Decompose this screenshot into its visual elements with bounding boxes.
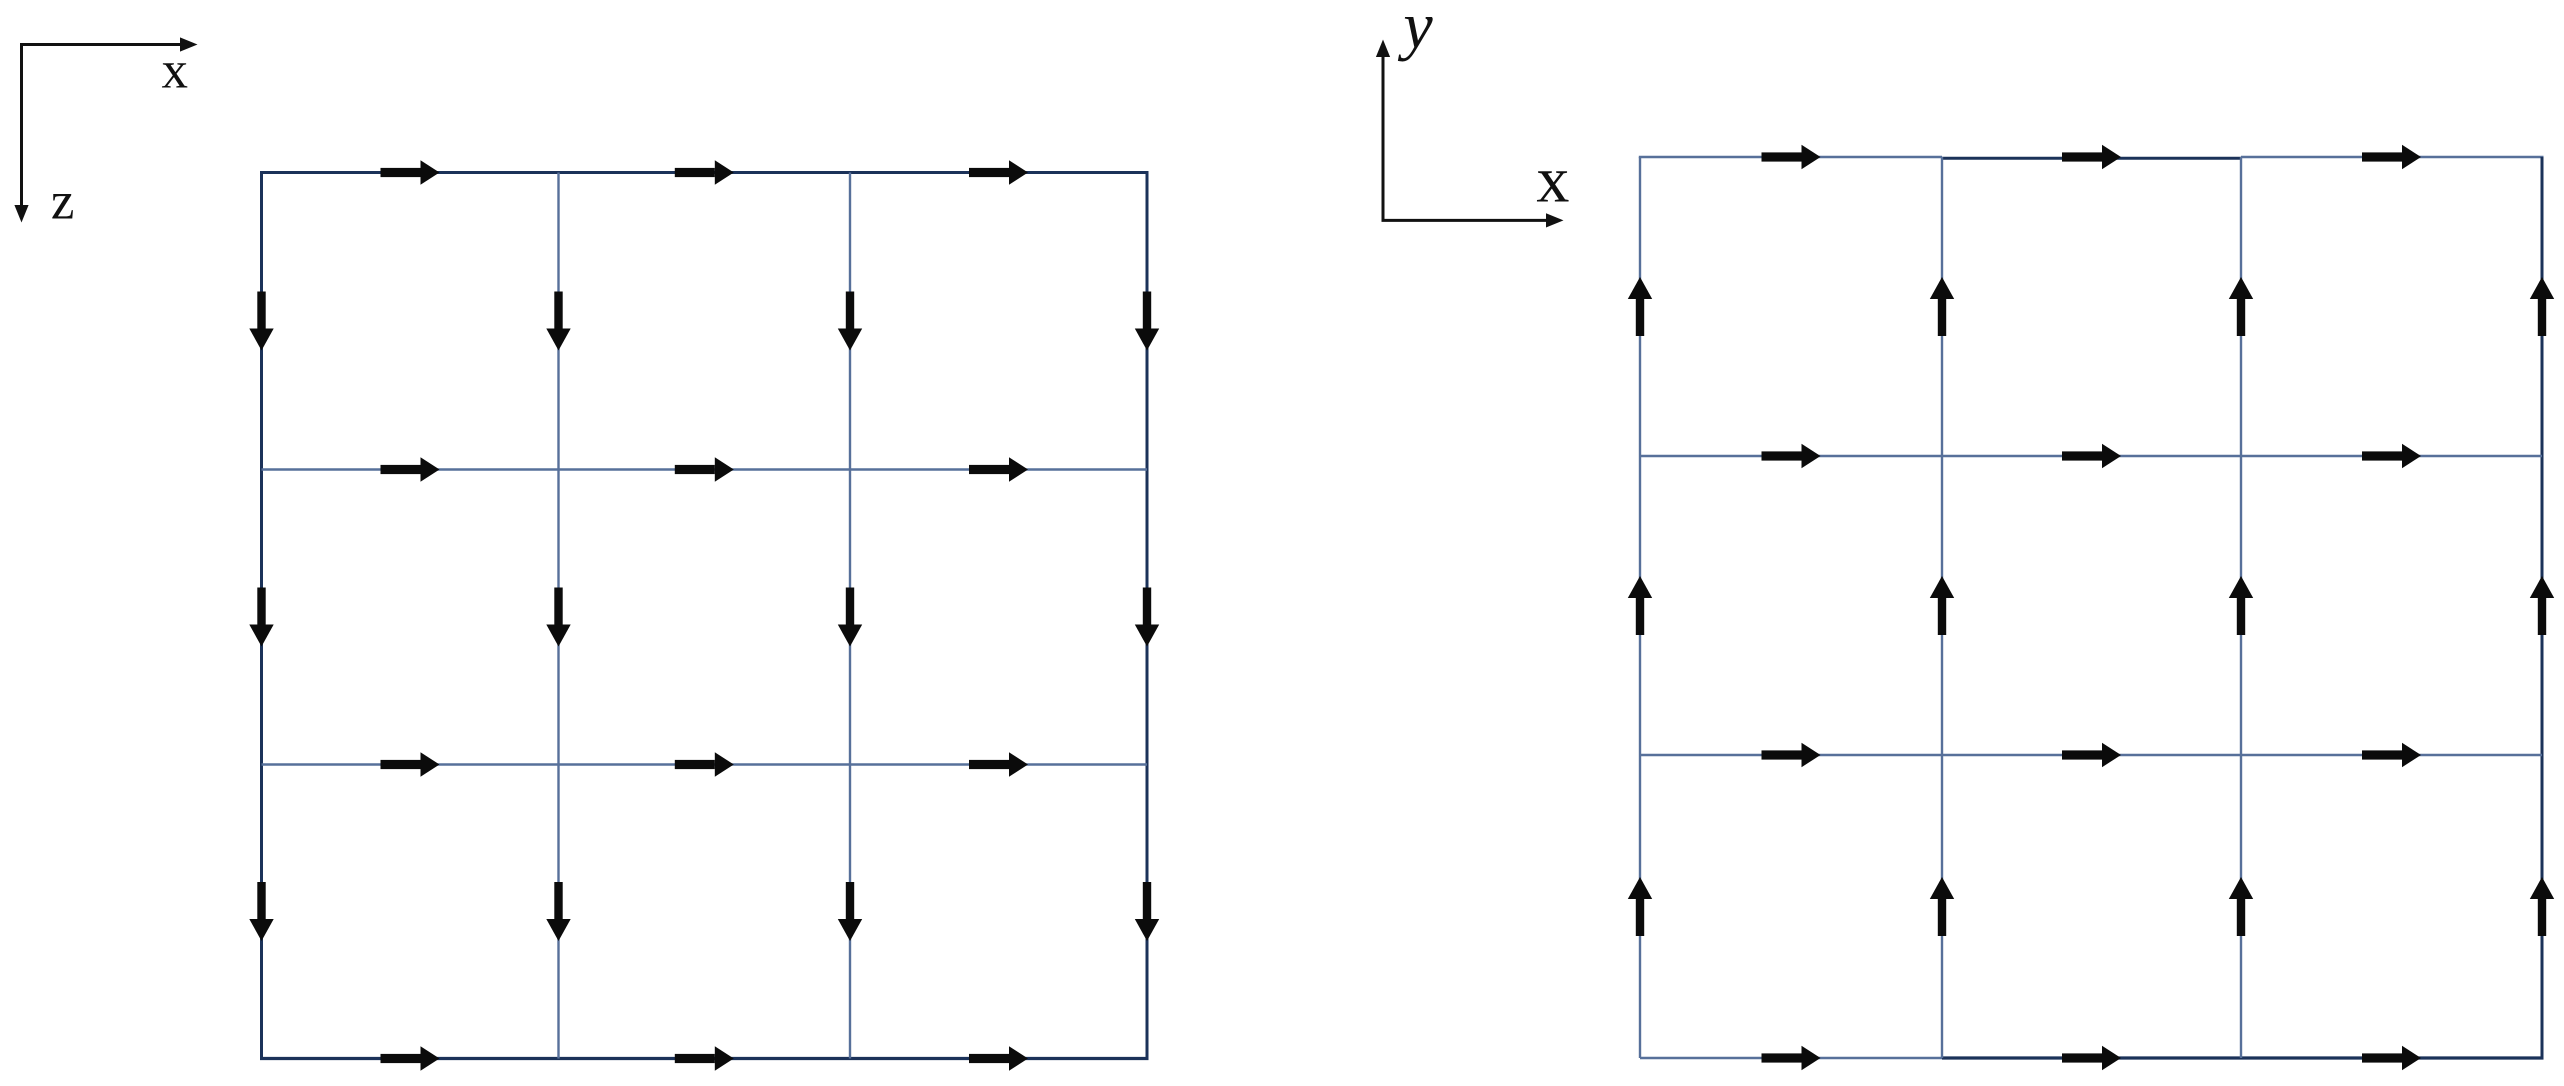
left grid x-velocity arrow h31 xyxy=(675,1046,734,1070)
left grid x-velocity arrow h10 xyxy=(381,457,440,481)
left grid x-velocity arrow h01 xyxy=(675,160,734,184)
right grid top border segment 3 xyxy=(2241,156,2544,158)
right grid x-velocity arrow h31 xyxy=(2062,1046,2121,1070)
right grid inner horizontal line 1 xyxy=(1640,455,2542,457)
left grid inner vertical line 1 xyxy=(557,173,559,1059)
left x-axis arrowhead xyxy=(180,37,198,51)
right grid y-velocity arrow v22 xyxy=(2229,877,2253,936)
right grid y-velocity arrow v13 xyxy=(2530,576,2554,635)
right grid inner vertical line 2 xyxy=(2240,157,2242,1058)
left grid bottom border xyxy=(260,1057,1149,1060)
right grid x-velocity arrow h01 xyxy=(2062,145,2121,169)
right grid top border segment 2 xyxy=(1942,157,2241,160)
svg-text:z: z xyxy=(51,173,75,231)
right grid y-velocity arrow v21 xyxy=(1930,877,1954,936)
right grid y-velocity arrow v02 xyxy=(2229,277,2253,336)
left grid x-velocity arrow h32 xyxy=(969,1046,1028,1070)
right x-axis arrowhead xyxy=(1546,213,1564,227)
right grid x-velocity arrow h22 xyxy=(2362,743,2421,767)
left grid x-velocity arrow h20 xyxy=(381,752,440,776)
right grid y-velocity arrow v01 xyxy=(1930,277,1954,336)
right grid bottom border segment 2 xyxy=(1942,1056,2544,1059)
right grid x-velocity arrow h21 xyxy=(2062,743,2121,767)
left grid left border xyxy=(260,173,263,1059)
right grid x-velocity arrow h12 xyxy=(2362,444,2421,468)
right grid x-velocity arrow h30 xyxy=(1762,1046,1821,1070)
right grid right border xyxy=(2541,157,2544,1058)
left grid z-velocity arrow v00 xyxy=(249,292,273,351)
right grid x-velocity arrow h11 xyxy=(2062,444,2121,468)
right grid inner vertical line 1 xyxy=(1941,157,1943,1058)
left grid x-velocity arrow h21 xyxy=(675,752,734,776)
left z-axis arrowhead xyxy=(14,205,28,223)
left grid z-velocity arrow v10 xyxy=(249,588,273,647)
right grid y-velocity arrow v23 xyxy=(2530,877,2554,936)
right grid top border segment 1 xyxy=(1639,156,1942,158)
right grid y-velocity arrow v00 xyxy=(1628,277,1652,336)
right grid bottom border segment 1 xyxy=(1640,1057,1942,1059)
left grid x-velocity arrow h12 xyxy=(969,457,1028,481)
left grid inner horizontal line 1 xyxy=(262,468,1148,470)
left grid x-velocity arrow h22 xyxy=(969,752,1028,776)
right grid x-velocity arrow h20 xyxy=(1762,743,1821,767)
right grid x-velocity arrow h32 xyxy=(2362,1046,2421,1070)
left axes x-z xyxy=(22,45,181,206)
right grid inner horizontal line 2 xyxy=(1640,754,2542,756)
svg-text:y: y xyxy=(1397,0,1433,63)
left grid z-velocity arrow v13 xyxy=(1135,588,1159,647)
right axes x-y xyxy=(1383,57,1547,221)
left grid x-velocity arrow h11 xyxy=(675,457,734,481)
left grid z-velocity arrow v23 xyxy=(1135,882,1159,941)
right grid x-velocity arrow h10 xyxy=(1762,444,1821,468)
svg-text:x: x xyxy=(1536,143,1569,216)
left grid z-velocity arrow v03 xyxy=(1135,292,1159,351)
left grid inner horizontal line 2 xyxy=(262,763,1148,765)
right grid y-velocity arrow v03 xyxy=(2530,277,2554,336)
left grid x-velocity arrow h00 xyxy=(381,160,440,184)
right grid y-velocity arrow v11 xyxy=(1930,576,1954,635)
left grid z-velocity arrow v20 xyxy=(249,882,273,941)
right y-axis arrowhead xyxy=(1376,40,1390,58)
right grid x-velocity arrow h00 xyxy=(1762,145,1821,169)
left grid top border xyxy=(260,171,1149,174)
left grid x-velocity arrow h02 xyxy=(969,160,1028,184)
right grid y-velocity arrow v10 xyxy=(1628,576,1652,635)
right grid left border xyxy=(1639,157,1641,1058)
left grid z-velocity arrow v01 xyxy=(546,292,570,351)
left grid inner vertical line 2 xyxy=(849,173,851,1059)
left grid z-velocity arrow v22 xyxy=(838,882,862,941)
left grid x-velocity arrow h30 xyxy=(381,1046,440,1070)
left grid right border xyxy=(1146,173,1149,1059)
right grid x-velocity arrow h02 xyxy=(2362,145,2421,169)
right grid y-velocity arrow v20 xyxy=(1628,877,1652,936)
left grid z-velocity arrow v12 xyxy=(838,588,862,647)
left grid z-velocity arrow v21 xyxy=(546,882,570,941)
right grid y-velocity arrow v12 xyxy=(2229,576,2253,635)
svg-text:x: x xyxy=(162,41,189,99)
left grid z-velocity arrow v11 xyxy=(546,588,570,647)
left grid z-velocity arrow v02 xyxy=(838,292,862,351)
